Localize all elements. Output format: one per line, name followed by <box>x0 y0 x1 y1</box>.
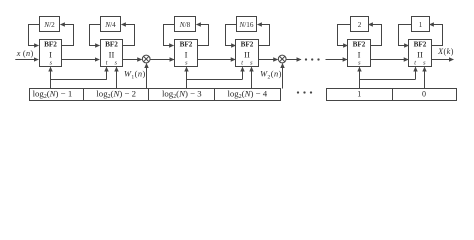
svg-text:BF2: BF2 <box>105 41 118 49</box>
wire input to U1 <box>15 59 38 61</box>
counter cell divider <box>148 89 150 101</box>
control branch wire stage 5 to stage 6 t <box>359 79 415 81</box>
wire U4 to multiplier M2 <box>259 59 278 61</box>
butterfly BF2 I (stage 3) <box>175 40 198 67</box>
svg-text:0: 0 <box>422 90 426 99</box>
wire delay output to BF2 stage 5 upper input <box>338 25 351 46</box>
wire BF2 stage 4 upper output to delay <box>258 25 270 46</box>
multiplier (twiddle W1) <box>142 55 150 63</box>
wire to U5 <box>326 59 348 61</box>
svg-text:1: 1 <box>419 21 423 29</box>
counter register box (stages 1-4 bits) <box>30 89 281 101</box>
wire U1 to U2 <box>62 59 100 61</box>
svg-text:BF2: BF2 <box>353 41 366 49</box>
ellipsis on main path <box>305 58 307 60</box>
counter cell divider <box>214 89 216 101</box>
svg-text:BF2: BF2 <box>180 41 193 49</box>
wire U2 to multiplier M1 <box>123 59 142 61</box>
wire M2 output <box>286 59 301 61</box>
svg-text:I: I <box>49 50 52 60</box>
delay register box N/8 (stage 3) <box>175 17 196 32</box>
wire U3 to U4 <box>197 59 235 61</box>
wire delay output to BF2 stage 4 upper input <box>226 25 237 46</box>
wire delay output to BF2 stage 2 upper input <box>90 25 101 46</box>
wire BF2 stage 6 upper output to delay <box>430 25 443 46</box>
svg-text:x (n): x (n) <box>16 49 34 58</box>
svg-text:1: 1 <box>357 90 361 99</box>
counter register box (bits 1,0) <box>327 89 457 101</box>
wire delay output to BF2 stage 1 upper input <box>29 25 40 46</box>
svg-text:BF2: BF2 <box>44 41 57 49</box>
delay register box 1 (stage 6) <box>412 17 430 32</box>
svg-text:II: II <box>109 50 115 60</box>
output wire <box>432 59 454 61</box>
wire BF2 stage 3 upper output to delay <box>197 25 209 46</box>
delay register box N/2 (stage 1) <box>40 17 60 32</box>
wire delay output to BF2 stage 6 upper input <box>399 25 412 46</box>
multiplier (twiddle W2) <box>278 55 286 63</box>
svg-text:t: t <box>241 60 243 67</box>
wire BF2 stage 5 upper output to delay <box>369 25 382 46</box>
svg-text:N/16: N/16 <box>239 21 254 29</box>
ellipsis counter <box>297 91 299 93</box>
twiddle factor riser W1(n) <box>146 64 148 89</box>
counter cell divider <box>83 89 85 101</box>
svg-text:t: t <box>414 60 416 67</box>
control branch wire stage 1 to stage 2 t <box>51 79 107 81</box>
wire BF2 stage 1 upper output to delay <box>61 25 74 46</box>
butterfly BF2 II (stage 6) <box>409 40 432 67</box>
svg-text:N/8: N/8 <box>179 21 191 29</box>
svg-text:BF2: BF2 <box>414 41 427 49</box>
delay register box N/4 (stage 2) <box>101 17 121 32</box>
svg-text:2: 2 <box>358 21 362 29</box>
delay register box 2 (stage 5) <box>351 17 369 32</box>
svg-text:I: I <box>358 50 361 60</box>
butterfly BF2 II (stage 4) <box>236 40 259 67</box>
wire BF2 stage 2 upper output to delay <box>122 25 135 46</box>
counter cell divider <box>392 89 394 101</box>
svg-text:X(k): X(k) <box>437 47 454 56</box>
twiddle factor riser W2(n) <box>282 64 284 89</box>
wire M1 to U3 <box>150 59 174 61</box>
svg-text:BF2: BF2 <box>241 41 254 49</box>
svg-text:t: t <box>106 60 108 67</box>
delay register box N/16 (stage 4) <box>237 17 257 32</box>
svg-text:N/4: N/4 <box>104 21 116 29</box>
svg-text:II: II <box>417 50 423 60</box>
svg-text:II: II <box>244 50 250 60</box>
wire delay output to BF2 stage 3 upper input <box>164 25 175 46</box>
wire U5 to U6 <box>370 59 408 61</box>
control branch wire stage 3 to stage 4 t <box>186 79 242 81</box>
butterfly BF2 II (stage 2) <box>101 40 123 67</box>
svg-text:I: I <box>185 50 188 60</box>
butterfly BF2 I (stage 1) <box>40 40 62 67</box>
butterfly BF2 I (stage 5) <box>348 40 371 67</box>
svg-text:N/2: N/2 <box>43 21 55 29</box>
